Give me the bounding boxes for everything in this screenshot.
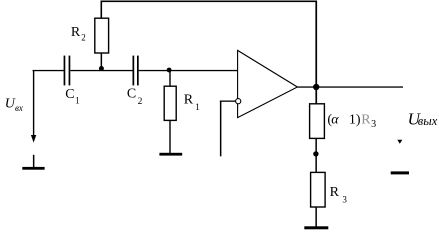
resistor R1: [164, 86, 176, 120]
op-amp inverting input bubble: [236, 99, 241, 104]
wire feedback left vertical to R2 top: [101, 1, 103, 19]
svg-text:вых: вых: [418, 114, 438, 128]
wire feedback right vertical down to output node: [315, 1, 317, 105]
capacitor C1: [64, 56, 71, 86]
wire stub to middle node: [315, 138, 317, 172]
wire R1 bottom stub: [169, 120, 170, 153]
wire input horizontal segment 1: [33, 70, 65, 71]
svg-text:R: R: [330, 185, 340, 200]
wire segment between C1 and C2: [70, 70, 133, 71]
svg-text:C: C: [127, 86, 136, 101]
wire op-amp output: [297, 86, 403, 87]
svg-text:1: 1: [195, 102, 200, 112]
svg-text:2: 2: [138, 97, 143, 107]
wire segment C2 to op-amp: [139, 70, 238, 71]
svg-text:3: 3: [342, 194, 347, 204]
output reference arrow: [397, 140, 402, 144]
ground R1: [159, 153, 182, 156]
svg-text:C: C: [65, 87, 74, 102]
node output junction: [313, 84, 319, 90]
op-amp U1: [238, 50, 298, 117]
svg-text:(α1)R: (α1)R: [327, 112, 371, 127]
wire R1 top stub: [169, 71, 170, 87]
svg-text:R: R: [71, 25, 81, 40]
wire top feedback horizontal: [101, 1, 318, 3]
wire from bubble left then down: [220, 101, 236, 102]
output reference bar: [391, 171, 409, 174]
node junction at R1 top: [167, 68, 172, 73]
svg-text:вх: вх: [15, 103, 23, 113]
capacitor C2: [133, 56, 139, 86]
resistor R2: [95, 18, 109, 53]
wire R3 bottom stub: [315, 207, 317, 227]
resistor (a-1)R3: [310, 104, 325, 139]
resistor R3: [311, 172, 326, 207]
ground input: [22, 155, 44, 170]
svg-text:2: 2: [81, 33, 86, 43]
node junction under R2: [99, 66, 104, 71]
svg-text:R: R: [184, 92, 194, 107]
input line Uvx with arrow: [33, 71, 34, 136]
node junction between resistors: [313, 151, 318, 156]
svg-text:1: 1: [75, 95, 80, 105]
ground R3: [304, 226, 328, 229]
wire R2 bottom stub: [101, 53, 103, 71]
svg-text:3: 3: [371, 119, 376, 130]
